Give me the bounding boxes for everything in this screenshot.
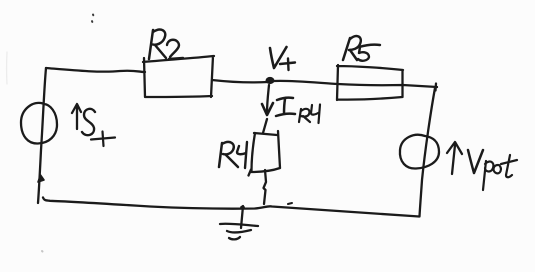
faint dot bottom left [41,250,44,253]
resistor R4 box [249,131,281,176]
arrowhead on left wire [38,175,44,182]
wire node to R5 [274,81,338,84]
label R4 subscript [299,109,310,122]
ground bar 3 [229,237,240,239]
wire left vertical [38,68,46,203]
wire through R5 [338,84,437,87]
source V_pot ellipse [400,135,439,169]
colon mark top [92,15,93,22]
ground stub [241,206,243,228]
arrowhead I_R4 [262,103,273,115]
node V+ dot [266,77,275,84]
resistor R5 box [337,65,403,100]
wire top left [46,68,145,72]
wire bottom [43,198,419,217]
arrow of Vpot label [447,142,462,174]
resistor R2 box [143,56,214,97]
ground bar 2 [227,230,251,232]
label R4 [219,142,238,167]
wire R4 to bottom [264,170,267,204]
faint left edge smudge [6,52,8,84]
wire node down to R4 [263,85,269,133]
tick above bottom wire [288,203,292,204]
label pot [483,161,493,190]
label V of Vpot [468,150,483,173]
label S plus [91,132,115,147]
label I [276,98,295,116]
arrow of S label [72,104,81,129]
wire right vertical [420,88,436,217]
current source S circle [21,103,57,144]
label S [82,109,95,135]
corner tick right [434,84,437,91]
label R5 [343,36,361,60]
wire R2 to node [212,80,268,82]
ground blob [240,206,245,210]
label V+ [270,47,287,68]
ground bar 1 [220,224,258,226]
label R2 [149,30,166,59]
